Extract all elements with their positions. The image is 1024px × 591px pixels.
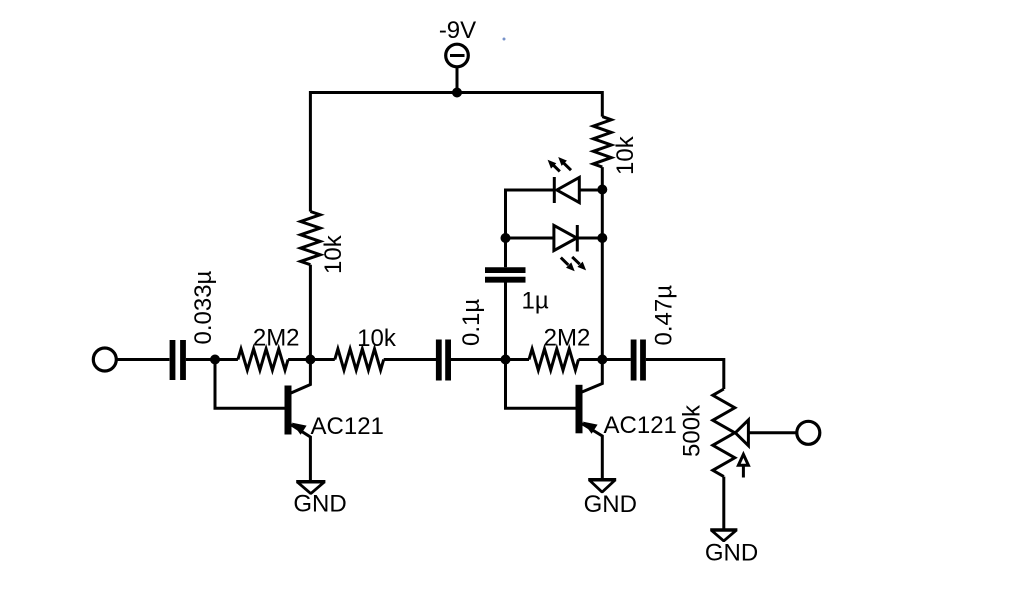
wire C2 to node C [504,282,507,359]
diode D2 cathode bar [576,225,579,252]
svg-text:GND: GND [293,491,346,518]
resistor R2 2M2 [238,349,288,370]
wire to D2 [506,237,554,240]
wire R3 to C3 [384,358,436,361]
ground symbol P1 [711,530,736,541]
svg-text:2M2: 2M2 [544,324,591,351]
junction dot node A [305,355,315,365]
svg-text:GND: GND [705,540,758,567]
diode D1 cathode bar [553,177,556,203]
svg-text:0.1µ: 0.1µ [458,299,485,346]
wire D2 to column [577,237,602,240]
transistor Q1 base bar [285,386,292,435]
wire R4 to LED column [601,167,604,359]
diode D2 triangle [554,225,577,250]
svg-text:AC121: AC121 [311,413,384,440]
wire C3 to R5 [451,358,529,361]
wire C4 to potentiometer [646,360,724,390]
svg-text:2M2: 2M2 [253,325,300,352]
svg-text:10k: 10k [320,234,347,274]
svg-text:-9V: -9V [439,17,476,44]
capacitor C2 1µ plate bottom [485,277,526,283]
resistor R3 10k [335,349,384,370]
junction dot node D [597,355,607,365]
potentiometer adjust arrow shaft [742,465,745,477]
junction dot node B [210,355,220,365]
junction dot supply/bus [452,88,462,98]
minus sign [450,54,465,57]
svg-text:0.033µ: 0.033µ [190,270,217,344]
transistor Q1 emitter [291,425,310,481]
ground symbol Q1 [297,482,324,494]
wire R5 to C4 [579,358,631,361]
svg-text:0.47µ: 0.47µ [650,285,677,346]
capacitor C3 plate right [445,340,451,381]
input terminal circle [93,348,116,371]
diode D1 triangle [557,177,580,202]
resistor R5 2M2 [529,349,579,370]
wire LED branch top [506,190,555,238]
potentiometer adjust arrow head [738,454,748,465]
wire C1 to R2 [186,358,238,361]
resistor R4 10k (vertical, right) [593,117,611,168]
ground symbol Q2 [589,480,615,492]
svg-text:1µ: 1µ [522,288,549,315]
transistor Q1 emitter arrow [292,423,307,435]
wire LED column to C2 [504,238,507,267]
transistor Q2 collector [582,360,602,393]
transistor Q1 base wire [215,360,285,409]
wire wiper to output [748,431,796,434]
wire top bus [310,93,602,212]
capacitor C4 plate right [640,340,646,381]
wire R2 to R3 [288,358,335,361]
junction dot LED2 right [597,233,607,243]
LED D1 arrow 1 [553,164,560,171]
svg-text:10k: 10k [357,325,397,352]
capacitor C4 plate left [631,340,637,381]
wire supply to bus [456,67,459,93]
capacitor C1 plate left [170,340,176,380]
junction dot R4/LED1 [597,185,607,195]
wire input to C1 [117,358,170,361]
svg-text:500k: 500k [679,404,706,457]
potentiometer P1 500k body [713,389,735,477]
wire D1 to column [579,189,602,192]
LED D1 arrow 2 [563,163,571,171]
transistor Q2 emitter [582,424,602,479]
junction dot LED2 left [501,233,511,243]
wire pot to ground [722,477,725,530]
LED D2 arrow 1 [561,258,569,265]
capacitor C2 1µ plate top [485,267,526,273]
LED D2 arrow 2 [572,257,580,264]
wire R1 to node A [309,265,312,360]
svg-text:AC121: AC121 [604,412,677,439]
resistor R1 10k (vertical, left) [301,212,321,265]
transistor Q2 base bar [576,385,583,434]
svg-text:GND: GND [584,491,637,518]
potentiometer wiper triangle [735,420,748,446]
transistor Q2 base wire [506,360,576,409]
supply terminal circle [446,44,469,67]
transistor Q2 emitter arrow [583,422,598,434]
capacitor C3 plate left [436,340,442,381]
capacitor C1 plate right [180,340,186,380]
output terminal circle [797,421,820,444]
junction dot node C [501,355,511,365]
svg-text:10k: 10k [612,135,639,175]
transistor Q1 collector [291,360,310,394]
stray blue speck [503,38,506,41]
